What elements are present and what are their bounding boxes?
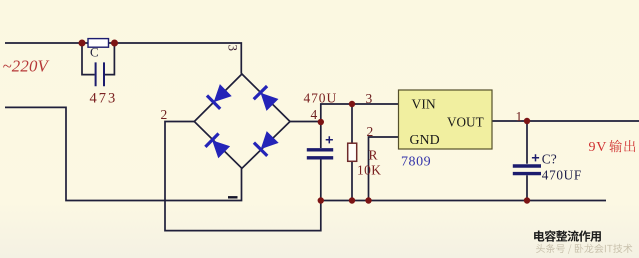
svg-text:3: 3 bbox=[226, 45, 241, 52]
junction R top on pin 3 wire bbox=[349, 101, 355, 107]
regulator U1 7809 body bbox=[399, 90, 493, 149]
wire VOUT pin 1 to right edge bbox=[492, 120, 639, 122]
junction node 4 bbox=[318, 119, 324, 125]
svg-text:10K: 10K bbox=[357, 163, 381, 178]
svg-text:470UF: 470UF bbox=[542, 167, 582, 182]
svg-text:VOUT: VOUT bbox=[447, 114, 484, 129]
diode D4 bottom-right bbox=[254, 131, 279, 156]
junction GND wire on rail bbox=[365, 197, 371, 203]
wire GND pin 2 down bbox=[369, 137, 399, 201]
svg-text:C?: C? bbox=[542, 151, 557, 166]
capacitor C4 output plates bbox=[513, 164, 541, 167]
diode bridge diamond outline bbox=[194, 74, 290, 168]
svg-text:2: 2 bbox=[161, 107, 168, 122]
wire cap 470U leads bbox=[320, 122, 322, 201]
svg-text:4: 4 bbox=[311, 107, 318, 122]
diode D1 top-left bbox=[207, 84, 232, 109]
caption title chinese bbox=[534, 230, 601, 241]
wire AC input 1 top bbox=[5, 43, 241, 74]
junction R bottom on rail bbox=[349, 197, 355, 203]
svg-text:2: 2 bbox=[367, 124, 374, 139]
wire node 4 to VIN pin 3 bbox=[290, 104, 399, 122]
junction C2 bottom on rail bbox=[318, 197, 324, 203]
wire resistor leads bbox=[351, 104, 353, 201]
wire node 2 loop to negative rail bbox=[165, 122, 321, 231]
svg-text:1: 1 bbox=[516, 109, 523, 124]
svg-text:9V: 9V bbox=[589, 140, 608, 155]
svg-text:3: 3 bbox=[366, 91, 373, 106]
svg-text:GND: GND bbox=[410, 133, 440, 148]
wire negative rail bbox=[318, 200, 606, 202]
junction C4 bottom on rail bbox=[524, 197, 530, 203]
wire output cap leads bbox=[526, 121, 528, 201]
svg-text:VIN: VIN bbox=[412, 96, 436, 111]
diode D2 top-right bbox=[254, 86, 279, 111]
svg-text:C: C bbox=[90, 44, 99, 59]
svg-text:7809: 7809 bbox=[401, 154, 431, 169]
junction at C left bbox=[79, 40, 86, 47]
minus label at bridge bottom bbox=[228, 196, 238, 198]
svg-text:~220V: ~220V bbox=[3, 57, 50, 76]
capacitor C3 473 plates bbox=[96, 62, 104, 86]
wire AC input 2 bottom-left L bbox=[5, 107, 242, 200]
svg-text:R: R bbox=[369, 148, 378, 163]
capacitor C2 plus sign bbox=[326, 136, 333, 143]
resistor R body bbox=[348, 143, 357, 161]
svg-text:473: 473 bbox=[90, 90, 118, 106]
junction at C right bbox=[111, 40, 118, 47]
capacitor C4 plus sign bbox=[532, 154, 539, 161]
watermark bbox=[536, 244, 632, 254]
label 9V output chinese bbox=[609, 140, 635, 153]
wire cap 473 parallel loop bbox=[82, 43, 114, 75]
capacitor C2 470U plates bbox=[307, 148, 333, 151]
svg-text:470U: 470U bbox=[304, 90, 338, 105]
junction node 1 bbox=[524, 118, 530, 124]
capacitor C box symbol bbox=[88, 39, 109, 48]
diode D3 bottom-left bbox=[205, 134, 230, 159]
